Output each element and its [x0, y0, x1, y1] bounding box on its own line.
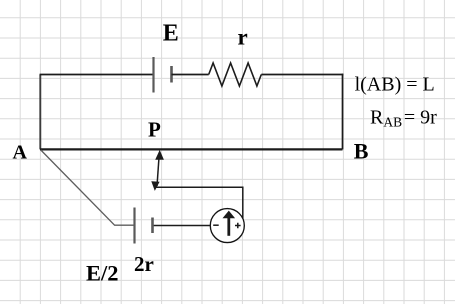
svg-text:A: A [13, 142, 28, 164]
battery E/2 long plate (+) [133, 208, 135, 244]
battery E/2 short plate (-) [151, 218, 154, 234]
wire left edge (top-left corner down to A) [39, 75, 41, 150]
battery E short plate (-) [170, 66, 173, 83]
galvanometer / current source circle [210, 209, 244, 243]
wire top edge: corner to battery E [40, 74, 154, 76]
svg-text:r: r [238, 25, 248, 50]
wire: jockey to galvanometer branch (horizontal) [155, 186, 243, 188]
battery E long plate (+) [152, 57, 154, 93]
svg-text:l(AB) = L: l(AB) = L [355, 73, 435, 95]
wire: branch corner down to galvanometer [242, 187, 244, 221]
wire: battery E/2 to node A (diagonal) [41, 150, 135, 225]
svg-text:P: P [148, 118, 161, 142]
jockey double-headed arrow at P [151, 150, 164, 191]
galvanometer minus terminal [213, 224, 219, 226]
galvanometer needle (up arrow) [223, 211, 236, 236]
svg-text:RAB= 9r: RAB= 9r [370, 107, 437, 130]
wire: resistor r to top-right corner [261, 74, 343, 76]
resistor r (zigzag) [209, 63, 262, 86]
wire: galvanometer to battery E/2 [153, 225, 212, 227]
svg-text:E: E [163, 21, 179, 47]
wire: battery E to resistor r [172, 74, 209, 76]
wire right edge (top-right corner down to B) [342, 74, 344, 150]
svg-text:2r: 2r [134, 252, 154, 276]
galvanometer plus terminal [235, 223, 241, 229]
wire AB (potentiometer wire) [40, 148, 343, 150]
svg-text:B: B [354, 138, 369, 163]
svg-text:E/2: E/2 [86, 261, 119, 286]
